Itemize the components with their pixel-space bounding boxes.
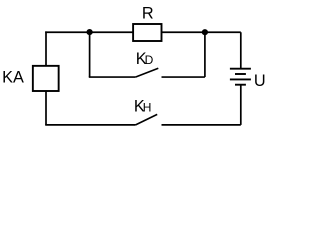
node junction dot left — [87, 29, 93, 35]
wire: right vertical battery bottom — [240, 85, 242, 125]
relay coil KA body — [33, 66, 59, 91]
wire: resistor to top-right corner — [162, 31, 241, 33]
wire: left vertical to coil — [45, 31, 47, 65]
svg-text:R: R — [142, 5, 154, 23]
battery U plate short upper — [235, 73, 246, 75]
wire: bottom-right horizontal — [162, 124, 241, 126]
switch KH blade — [136, 114, 158, 125]
resistor R1 body — [133, 24, 161, 41]
switch KD blade — [136, 68, 159, 77]
wire: KD branch vertical from node A — [89, 32, 91, 77]
svg-text:H: H — [143, 100, 152, 114]
svg-text:U: U — [254, 72, 266, 90]
battery U plate long lower — [230, 78, 251, 80]
battery U plate long top — [230, 68, 251, 70]
wire: coil bottom down — [45, 91, 47, 125]
svg-text:D: D — [145, 53, 154, 67]
battery U plate short bottom — [235, 84, 246, 86]
wire: bottom-left horizontal — [45, 124, 135, 126]
wire: right vertical battery top — [240, 32, 242, 68]
node junction dot right — [202, 29, 208, 35]
wire: KD branch horizontal left — [89, 76, 136, 78]
wire: KD branch horizontal right — [162, 76, 205, 78]
wire: top-left horizontal (node A to resistor) — [45, 31, 133, 33]
svg-text:KA: KA — [2, 69, 24, 87]
wire: KD branch vertical to node B — [204, 32, 206, 77]
